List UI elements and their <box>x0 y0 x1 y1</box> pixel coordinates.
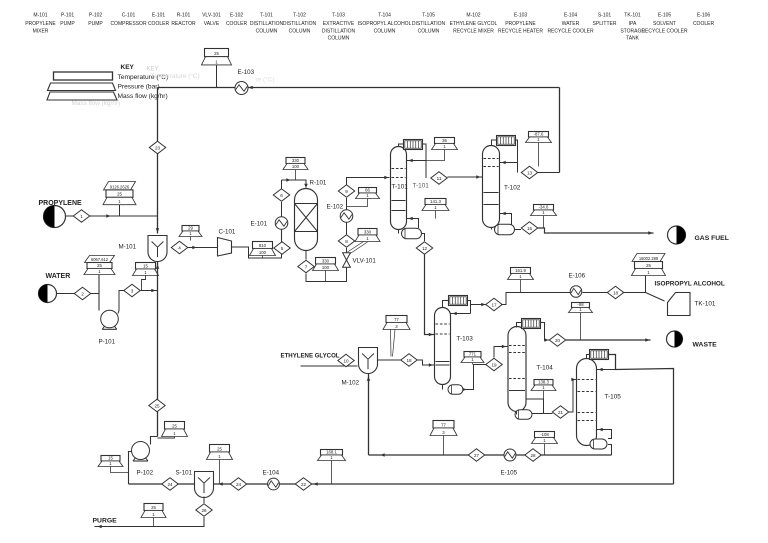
svg-text:E-105: E-105 <box>658 13 672 19</box>
svg-text:COLUMN: COLUMN <box>418 28 440 34</box>
svg-text:RECYCLE COOLER: RECYCLE COOLER <box>547 28 594 34</box>
svg-text:T-104: T-104 <box>537 365 554 372</box>
svg-text:PROPYLENE: PROPYLENE <box>25 21 56 27</box>
svg-text:E-103: E-103 <box>514 13 528 19</box>
svg-text:138.3: 138.3 <box>538 379 549 384</box>
svg-text:T-101: T-101 <box>413 183 430 190</box>
svg-text:810: 810 <box>259 243 267 248</box>
svg-text:ISOPROPYL ALCOHOL: ISOPROPYL ALCOHOL <box>655 281 725 288</box>
svg-text:re (°C): re (°C) <box>256 76 275 84</box>
svg-text:8: 8 <box>345 239 348 244</box>
svg-text:R-101: R-101 <box>177 13 191 19</box>
svg-text:20: 20 <box>555 338 561 343</box>
svg-text:M-101: M-101 <box>33 13 47 19</box>
svg-text:RECYCLE HEATER: RECYCLE HEATER <box>498 28 543 34</box>
svg-text:ETHYLENE GLYCOL: ETHYLENE GLYCOL <box>450 21 498 27</box>
svg-text:T-102: T-102 <box>504 185 521 192</box>
svg-text:11: 11 <box>437 176 442 181</box>
svg-text:GAS FUEL: GAS FUEL <box>695 235 729 242</box>
svg-text:M-102: M-102 <box>342 380 360 387</box>
svg-text:100: 100 <box>322 265 330 270</box>
svg-text:100: 100 <box>292 164 300 169</box>
svg-text:141.3: 141.3 <box>430 199 441 204</box>
svg-text:25: 25 <box>172 423 177 428</box>
svg-text:IPA: IPA <box>629 21 637 27</box>
svg-text:TANK: TANK <box>626 36 640 42</box>
svg-text:18: 18 <box>406 358 412 363</box>
svg-text:E-103: E-103 <box>238 69 255 76</box>
svg-text:PUMP: PUMP <box>88 21 103 27</box>
svg-text:2: 2 <box>81 291 84 296</box>
svg-text:P-101: P-101 <box>61 13 75 19</box>
svg-text:COOLER: COOLER <box>148 21 170 27</box>
svg-text:28: 28 <box>530 453 536 458</box>
svg-text:T-103: T-103 <box>457 336 474 343</box>
svg-text:COOLER: COOLER <box>693 21 715 27</box>
svg-text:-108: -108 <box>540 432 549 437</box>
svg-text:23: 23 <box>155 145 161 150</box>
svg-text:24: 24 <box>167 482 173 487</box>
svg-text:COLUMN: COLUMN <box>328 36 350 42</box>
svg-text:S-101: S-101 <box>598 13 612 19</box>
svg-text:COLUMN: COLUMN <box>289 28 311 34</box>
svg-text:9126.2626: 9126.2626 <box>110 184 130 189</box>
svg-text:E-102: E-102 <box>327 204 344 211</box>
svg-text:10: 10 <box>343 358 349 363</box>
svg-text:Mass flow (kg/hr): Mass flow (kg/hr) <box>118 93 168 100</box>
svg-text:25: 25 <box>97 263 102 268</box>
svg-text:6067.612: 6067.612 <box>91 257 109 262</box>
svg-text:COLUMN: COLUMN <box>374 28 396 34</box>
svg-text:16002.289: 16002.289 <box>639 256 659 261</box>
svg-text:22: 22 <box>301 482 307 487</box>
svg-text:66: 66 <box>365 187 370 192</box>
svg-text:15: 15 <box>108 455 113 460</box>
svg-text:6: 6 <box>280 193 283 198</box>
svg-text:168.1: 168.1 <box>326 449 337 454</box>
svg-text:COOLER: COOLER <box>226 21 248 27</box>
svg-text:E-102: E-102 <box>230 13 244 19</box>
svg-text:1: 1 <box>80 214 83 219</box>
svg-text:REACTOR: REACTOR <box>171 21 196 27</box>
svg-text:E-104: E-104 <box>263 470 280 477</box>
svg-text:18: 18 <box>613 290 619 295</box>
svg-text:R-101: R-101 <box>310 180 327 187</box>
svg-text:KEY: KEY <box>121 64 135 71</box>
svg-text:4: 4 <box>178 245 181 250</box>
svg-text:5: 5 <box>281 246 284 251</box>
svg-text:C-101: C-101 <box>122 13 136 19</box>
svg-text:C-101: C-101 <box>219 229 236 236</box>
svg-text:SOLVENT: SOLVENT <box>653 21 676 27</box>
svg-text:DISTILLATION: DISTILLATION <box>322 28 356 34</box>
svg-text:E-101: E-101 <box>152 13 166 19</box>
svg-text:T-105: T-105 <box>422 13 435 19</box>
svg-text:E-106: E-106 <box>697 13 711 19</box>
svg-text:T-104: T-104 <box>378 13 391 19</box>
svg-text:29: 29 <box>188 225 193 230</box>
svg-text:E-104: E-104 <box>564 13 578 19</box>
svg-text:25: 25 <box>154 403 160 408</box>
svg-text:DISTILLATION: DISTILLATION <box>283 21 317 27</box>
svg-text:330: 330 <box>322 258 330 263</box>
svg-text:25: 25 <box>214 51 219 56</box>
svg-text:100: 100 <box>259 250 267 255</box>
svg-text:25: 25 <box>217 446 222 451</box>
svg-text:Temperature (°C): Temperature (°C) <box>151 72 200 80</box>
svg-text:TK-101: TK-101 <box>695 301 716 308</box>
svg-text:E-105: E-105 <box>501 470 518 477</box>
svg-text:330: 330 <box>292 158 300 163</box>
svg-text:S-101: S-101 <box>176 470 193 477</box>
svg-text:KEY: KEY <box>147 67 159 73</box>
svg-text:15: 15 <box>527 226 533 231</box>
svg-text:-34.6: -34.6 <box>539 204 549 209</box>
svg-text:15: 15 <box>143 263 148 268</box>
svg-text:E-101: E-101 <box>251 221 268 228</box>
svg-text:T-102: T-102 <box>293 13 306 19</box>
svg-text:WATER: WATER <box>46 273 71 280</box>
svg-text:PROPYLENE: PROPYLENE <box>39 200 83 207</box>
svg-text:25: 25 <box>117 192 122 197</box>
svg-text:MIXER: MIXER <box>33 28 49 34</box>
svg-text:P-101: P-101 <box>99 339 116 346</box>
svg-text:PUMP: PUMP <box>60 21 75 27</box>
svg-text:9: 9 <box>345 189 348 194</box>
svg-text:T-101: T-101 <box>260 13 273 19</box>
svg-text:-87.6: -87.6 <box>534 131 544 136</box>
svg-text:77: 77 <box>441 422 446 427</box>
svg-text:M-102: M-102 <box>466 13 480 19</box>
svg-text:26: 26 <box>201 508 207 513</box>
svg-text:19: 19 <box>491 362 497 367</box>
svg-text:24: 24 <box>236 482 242 487</box>
svg-text:ISOPROPYL ALCOHOL: ISOPROPYL ALCOHOL <box>358 21 412 27</box>
svg-text:25: 25 <box>646 263 651 268</box>
svg-text:E-106: E-106 <box>569 273 586 280</box>
svg-text:COMPRESSOR: COMPRESSOR <box>110 21 147 27</box>
svg-text:DISTILLATION: DISTILLATION <box>412 21 446 27</box>
svg-text:7: 7 <box>305 264 308 269</box>
svg-text:21: 21 <box>558 410 564 415</box>
svg-text:WASTE: WASTE <box>693 342 718 349</box>
svg-text:VLV-101: VLV-101 <box>353 258 377 265</box>
svg-text:12: 12 <box>422 246 428 251</box>
svg-text:DISTILLATION: DISTILLATION <box>250 21 284 27</box>
svg-text:Mass flow (kg/hr): Mass flow (kg/hr) <box>72 100 121 107</box>
svg-text:PURGE: PURGE <box>93 518 118 525</box>
svg-text:771: 771 <box>469 351 477 356</box>
svg-text:T-103: T-103 <box>332 13 345 19</box>
svg-text:P-102: P-102 <box>89 13 103 19</box>
svg-text:77: 77 <box>394 317 399 322</box>
svg-text:ETHYLENE GLYCOL: ETHYLENE GLYCOL <box>281 353 340 360</box>
svg-text:Pressure (bar): Pressure (bar) <box>118 84 160 91</box>
svg-text:27: 27 <box>474 453 480 458</box>
svg-text:VALVE: VALVE <box>204 21 220 27</box>
svg-text:3: 3 <box>131 288 134 293</box>
svg-text:M-101: M-101 <box>119 244 137 251</box>
svg-text:SPLITTER: SPLITTER <box>593 21 617 27</box>
svg-text:TK-101: TK-101 <box>624 13 641 19</box>
svg-text:25: 25 <box>151 505 156 510</box>
svg-text:T-105: T-105 <box>605 394 622 401</box>
svg-text:13: 13 <box>527 170 533 175</box>
svg-text:RECYCLE COOLER: RECYCLE COOLER <box>641 28 688 34</box>
svg-text:PROPYLENE: PROPYLENE <box>505 21 536 27</box>
svg-text:P-102: P-102 <box>137 470 154 477</box>
svg-text:T-101: T-101 <box>392 184 409 191</box>
svg-text:WATER: WATER <box>562 21 580 27</box>
svg-text:COLUMN: COLUMN <box>256 28 278 34</box>
svg-text:330: 330 <box>364 229 372 234</box>
svg-text:161.9: 161.9 <box>515 268 526 273</box>
svg-text:17: 17 <box>491 302 497 307</box>
svg-text:RECYCLE MIXER: RECYCLE MIXER <box>453 28 494 34</box>
svg-text:EXTRACTIVE: EXTRACTIVE <box>323 21 355 27</box>
svg-text:VLV-101: VLV-101 <box>202 13 221 19</box>
svg-text:36: 36 <box>442 138 447 143</box>
